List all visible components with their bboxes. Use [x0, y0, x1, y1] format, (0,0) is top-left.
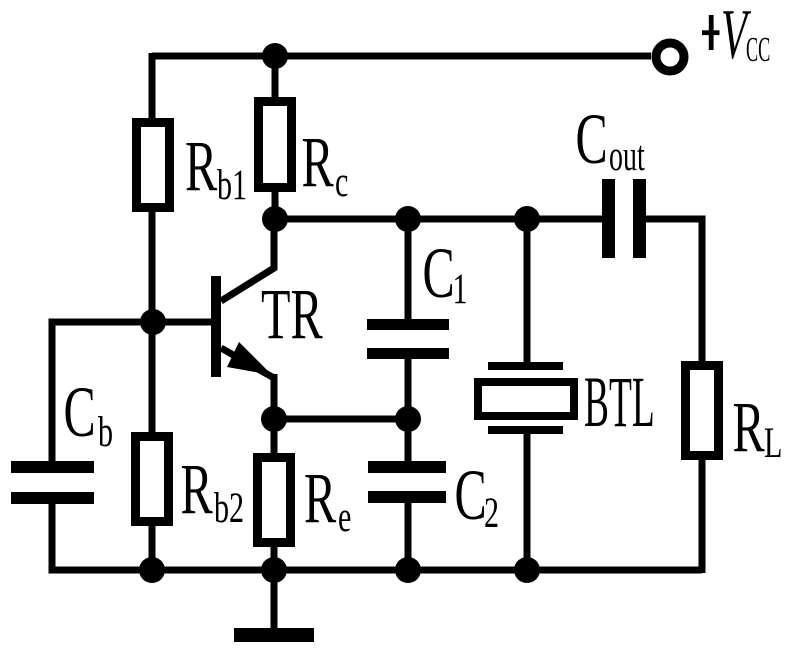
resistor Rb2	[131, 432, 173, 526]
svg-text:BTL: BTL	[584, 363, 655, 442]
svg-text:2: 2	[484, 490, 499, 538]
label C2	[455, 456, 500, 538]
label Cb	[64, 373, 114, 457]
wire: ground stem	[271, 570, 278, 630]
wire: RL to bottom rail	[699, 456, 706, 573]
wire: Rb1 to base node	[149, 208, 156, 326]
wire: BTL to bottom rail	[524, 433, 531, 573]
wire: Cb to bottom rail	[49, 502, 56, 573]
wire: emitter node to Re	[271, 416, 278, 457]
node dot: C1 top	[395, 206, 421, 232]
label Rc	[302, 123, 349, 207]
svg-text:R: R	[304, 459, 336, 539]
wire: collector rail to C1	[405, 215, 412, 320]
svg-text:C: C	[455, 456, 487, 536]
svg-text:b1: b1	[217, 162, 247, 210]
svg-text:C: C	[423, 234, 455, 314]
svg-text:R: R	[302, 123, 334, 203]
node dot: BTL top	[514, 206, 540, 232]
wire: collector rail to BTL	[524, 215, 531, 363]
svg-text:1: 1	[453, 266, 468, 314]
label Rb2	[181, 450, 245, 533]
label +Vcc plus sign	[702, 15, 720, 50]
node dot: emitter node	[261, 406, 287, 432]
capacitor C2	[368, 461, 446, 503]
wire: Cb branch down	[49, 319, 56, 463]
svg-text:C: C	[64, 373, 96, 453]
wire: emitter lead diagonal	[221, 348, 274, 378]
resistor Rc	[254, 97, 296, 192]
wire: emitter node to C2	[405, 415, 412, 462]
label Rb1	[185, 127, 247, 210]
wire: collector lead	[221, 222, 274, 301]
svg-text:e: e	[338, 494, 351, 542]
wire: collector rail	[275, 216, 602, 223]
crystal BTL	[474, 362, 578, 434]
node dot: bottom rail BTL	[514, 557, 540, 583]
svg-text:CC: CC	[746, 31, 770, 70]
node dot: emitter rail right	[395, 406, 421, 432]
svg-text:R: R	[181, 450, 213, 530]
label C1	[423, 234, 468, 314]
node dot: collector node	[262, 206, 288, 232]
label Cout	[576, 100, 645, 180]
svg-text:TR: TR	[261, 275, 323, 355]
transistor TR base bar	[211, 276, 221, 377]
node dot: top rail / Rc	[262, 43, 288, 69]
terminal +Vcc	[656, 43, 684, 71]
node dot: base node	[140, 309, 166, 335]
wire: +Vcc top rail	[152, 53, 651, 60]
wire: C2 to bottom rail	[405, 502, 412, 573]
svg-text:b: b	[98, 409, 113, 457]
node dot: bottom rail Re	[261, 557, 287, 583]
label Re	[304, 459, 351, 542]
wire: top rail to Rb1	[149, 53, 156, 122]
svg-text:b2: b2	[214, 485, 244, 533]
svg-text:c: c	[335, 159, 348, 207]
wire: emitter lead vertical	[271, 374, 278, 422]
wire: C1 to emitter node	[405, 358, 412, 423]
node dot: bottom rail Rb2	[139, 557, 165, 583]
capacitor C1	[367, 319, 449, 359]
resistor Rb1	[132, 118, 174, 212]
resistor RL	[681, 361, 723, 460]
svg-text:L: L	[764, 420, 782, 468]
ground	[234, 628, 314, 642]
wire: Re to bottom rail	[271, 543, 278, 573]
wire: base	[49, 319, 212, 326]
svg-text:C: C	[576, 100, 608, 180]
transistor TR emitter arrow	[227, 342, 272, 375]
wire: emitter node rail	[274, 416, 408, 423]
label RL	[733, 388, 783, 468]
wire: bottom ground rail	[49, 567, 703, 574]
node dot: bottom rail C2	[395, 557, 421, 583]
capacitor Cb	[11, 461, 94, 504]
wire: base node to Rb2	[149, 318, 156, 436]
svg-text:R: R	[733, 388, 765, 468]
wire: Rc top	[272, 53, 279, 101]
wire: Cout to RL branch	[646, 219, 702, 365]
capacitor Cout	[602, 179, 646, 258]
resistor Re	[253, 453, 295, 547]
wire: Rc bottom to collector node	[272, 188, 279, 222]
wire: Rb2 to bottom rail	[149, 522, 156, 573]
svg-text:R: R	[185, 127, 217, 207]
svg-text:out: out	[609, 132, 645, 179]
